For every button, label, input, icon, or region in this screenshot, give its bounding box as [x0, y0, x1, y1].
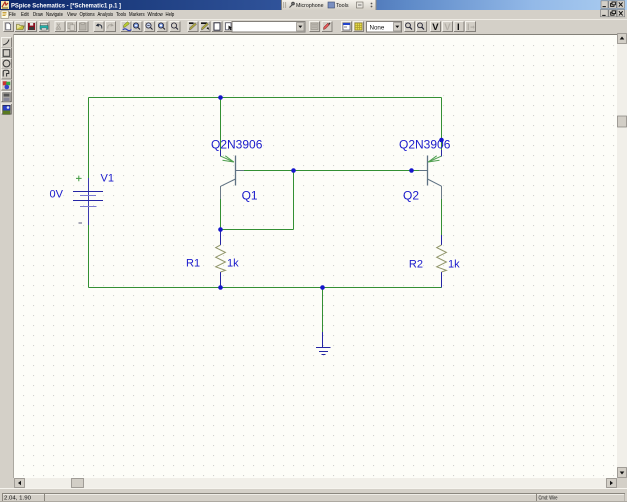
Q2 base stub — [419, 170, 428, 172]
corner — [617, 478, 627, 488]
svg-text:I: I — [467, 22, 470, 33]
svg-text:R1: R1 — [186, 258, 200, 270]
status bar — [0, 488, 627, 502]
svg-text:Options: Options — [80, 12, 95, 18]
svg-text:V: V — [444, 22, 451, 33]
node dot R1 bottom rail — [218, 285, 223, 290]
Q1 collector pin — [220, 186, 222, 199]
wire Q1 collector to R1 — [220, 199, 222, 230]
Q2 collector pin — [441, 186, 443, 199]
transistor Q1 base bar — [235, 156, 237, 186]
svg-text:Analysis: Analysis — [98, 12, 114, 18]
mdi window buttons — [601, 10, 625, 17]
svg-text:Markers: Markers — [129, 12, 145, 18]
svg-text:Q2: Q2 — [403, 189, 419, 203]
Q2 emitter arrow — [428, 156, 441, 162]
V1 minus mark — [79, 222, 83, 224]
ground — [316, 332, 331, 355]
svg-text:V1: V1 — [101, 173, 114, 185]
toolbar — [0, 19, 627, 34]
svg-text:I: I — [457, 22, 460, 33]
Q1 base stub — [236, 170, 245, 172]
V1 plus mark — [76, 176, 82, 182]
svg-text:Draw: Draw — [33, 12, 44, 18]
language bar — [282, 0, 377, 10]
resistor R1 zigzag — [216, 245, 226, 272]
battery V1 plates — [73, 192, 103, 201]
Q1 emitter pin — [220, 150, 222, 157]
Q2 collector diagonal — [428, 179, 442, 186]
svg-text:Navigate: Navigate — [46, 12, 63, 18]
svg-text:2.04, 1.90: 2.04, 1.90 — [4, 496, 31, 502]
node dot Q1 base junction — [291, 168, 296, 173]
svg-text:View: View — [67, 12, 77, 18]
svg-text:Help: Help — [166, 12, 175, 18]
svg-text:0V: 0V — [50, 189, 64, 201]
wire diode-connect horizontal — [221, 229, 294, 231]
wire left rail upper — [88, 98, 90, 179]
wire Q2 emitter — [441, 98, 443, 156]
title window buttons — [601, 1, 625, 8]
resistor R2 zigzag — [437, 245, 447, 272]
svg-text:Cmd: Wire: Cmd: Wire — [539, 496, 558, 502]
node dot ground rail — [320, 285, 325, 290]
left palette — [0, 34, 14, 478]
wire Q2 collector to R2 — [441, 199, 443, 235]
wire bottom rail — [89, 287, 442, 289]
svg-text:Microphone: Microphone — [296, 3, 324, 9]
title bar — [0, 0, 627, 10]
node dot Q2 emitter wire — [439, 138, 444, 143]
svg-text:Edit: Edit — [21, 12, 29, 18]
horizontal scrollbar — [14, 478, 617, 488]
resistor R1 pins — [220, 230, 222, 288]
svg-text:Window: Window — [148, 12, 164, 18]
vertical scrollbar — [617, 33, 627, 478]
svg-text:1k: 1k — [448, 259, 460, 271]
Q2 emitter pin — [441, 150, 443, 157]
node dot top rail Q1 emitter — [218, 95, 223, 100]
Q1 collector diagonal — [221, 179, 236, 186]
svg-text:R2: R2 — [409, 259, 423, 271]
svg-text:Q2N3906: Q2N3906 — [399, 137, 451, 151]
svg-text:None: None — [370, 24, 385, 31]
Q1 emitter arrow — [221, 156, 234, 162]
wire ground stub — [322, 288, 324, 333]
wire base bus Q1-Q2 — [236, 170, 427, 172]
svg-text:1k: 1k — [227, 258, 239, 270]
menu bar — [0, 10, 627, 19]
node dot Q2 base junction — [409, 168, 414, 173]
wire Q1 emitter — [220, 98, 222, 157]
node dot Q1 collector R1 top — [218, 227, 223, 232]
wire top rail — [89, 97, 442, 99]
svg-text:Q2N3906: Q2N3906 — [211, 137, 263, 151]
svg-text:Tools: Tools — [336, 3, 349, 9]
transistor Q2 base bar — [427, 156, 429, 186]
svg-text:Tools: Tools — [116, 12, 126, 18]
resistor R2 pins — [441, 235, 443, 288]
wire diode-connect vertical — [293, 171, 295, 230]
svg-text:PSpice Schematics - [*Schemati: PSpice Schematics - [*Schematic1 p.1 ] — [11, 3, 121, 10]
svg-text:V: V — [432, 22, 439, 33]
svg-text:File: File — [9, 12, 16, 18]
battery V1 pins — [88, 178, 90, 225]
wire left rail lower — [88, 225, 90, 288]
svg-text:Q1: Q1 — [242, 189, 258, 203]
